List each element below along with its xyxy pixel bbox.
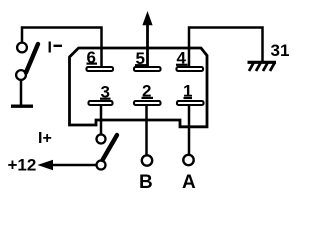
- underline 2: [142, 97, 154, 99]
- wire I- to earth: [20, 80, 23, 106]
- pin 6 terminal bar: [87, 67, 114, 71]
- terminal B circle: [142, 155, 152, 165]
- wire pin 2 to terminal B: [145, 105, 148, 156]
- arrow up (output): [143, 13, 152, 25]
- switch I+ terminal bottom: [97, 161, 106, 170]
- svg-text:+12: +12: [8, 156, 37, 175]
- switch I- lever: [26, 44, 38, 73]
- underline 4: [176, 64, 188, 66]
- svg-text:B: B: [139, 172, 153, 193]
- svg-text:I: I: [48, 40, 52, 57]
- earth bar: [11, 104, 33, 107]
- switch I- terminal bottom: [16, 70, 26, 80]
- wire from switch I- to pin 6: [22, 28, 102, 69]
- wire pin 1 to terminal A: [188, 105, 191, 155]
- pin 5 terminal bar: [134, 67, 161, 71]
- underline 6: [87, 62, 98, 64]
- underline 3: [100, 98, 111, 100]
- pin 4 terminal bar: [177, 67, 204, 71]
- wire pin 3 to switch I+: [100, 105, 103, 135]
- chassis ground symbol 31: [248, 62, 277, 71]
- switch I+ lever: [103, 135, 118, 160]
- svg-text:A: A: [182, 172, 196, 193]
- svg-text:31: 31: [271, 41, 290, 60]
- arrow left (+12 feed): [39, 160, 53, 169]
- wire pin 4 to ground 31: [189, 28, 263, 69]
- connector housing outline: [70, 48, 208, 127]
- pin 2 terminal bar: [134, 101, 161, 105]
- terminal A circle: [183, 155, 193, 165]
- pin 1 terminal bar: [177, 101, 204, 105]
- underline 5: [135, 64, 147, 66]
- wire pin 5 to output arrow: [146, 22, 149, 68]
- underline 1: [184, 97, 193, 99]
- switch I+ terminal top: [97, 135, 106, 144]
- pin 3 terminal bar: [89, 101, 113, 105]
- wire I+ to +12: [50, 164, 96, 167]
- svg-text:I+: I+: [38, 130, 52, 147]
- switch I- terminal top: [17, 43, 27, 53]
